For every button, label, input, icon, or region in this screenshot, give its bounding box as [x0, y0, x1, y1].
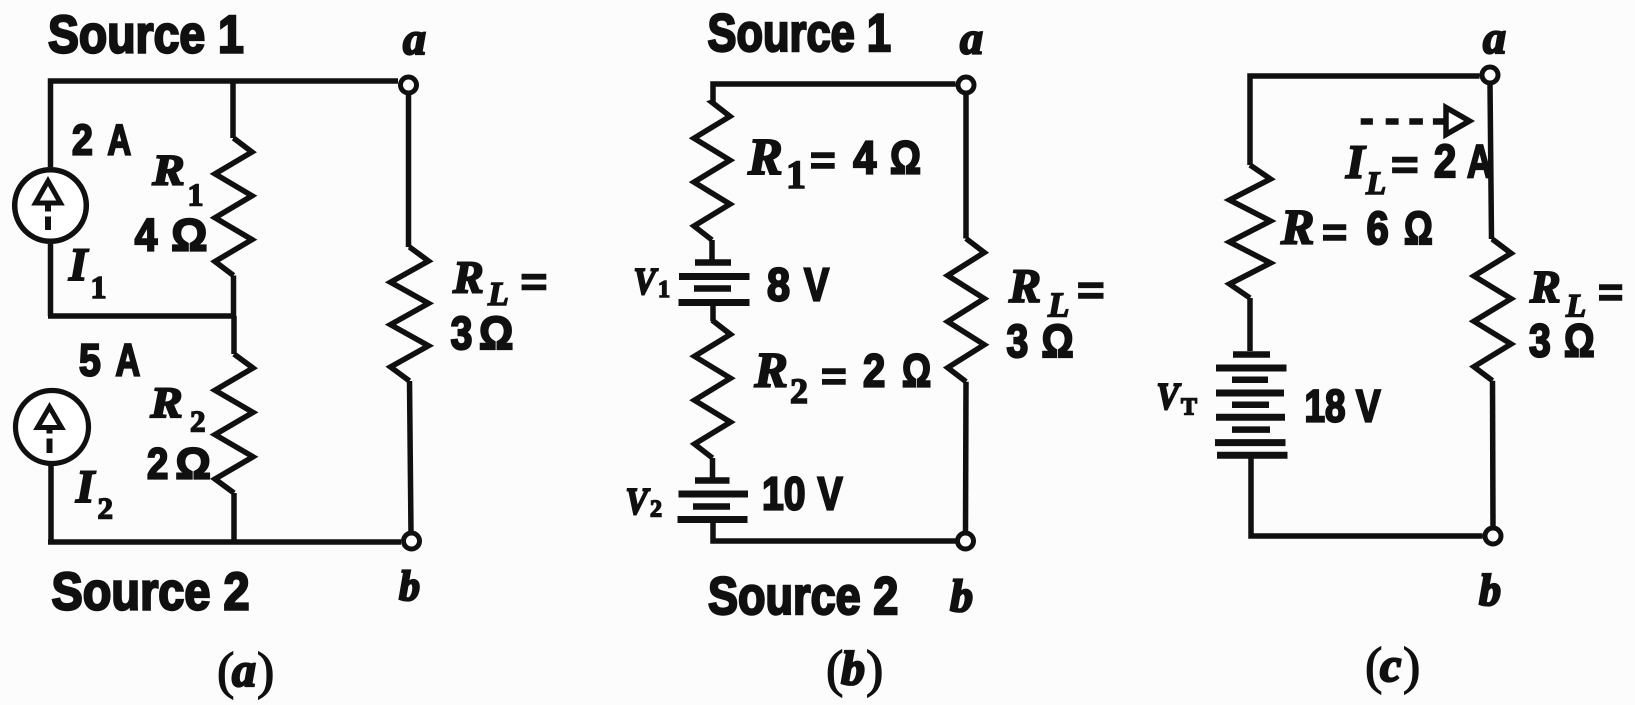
svg-text:R: R	[1280, 199, 1314, 255]
node a (b) open terminal	[958, 77, 974, 93]
label I2	[75, 461, 113, 526]
wire: (b) load branch RL to node b	[963, 382, 969, 533]
resistor RL (c) 3 ohm zigzag	[1474, 239, 1511, 381]
label 3 ohm (b)	[1007, 316, 1074, 368]
wire: (c) stub R to battery VT	[1247, 298, 1253, 351]
svg-text:18: 18	[1305, 381, 1346, 431]
node b (a) open terminal	[404, 533, 420, 549]
label 8 V	[767, 259, 829, 311]
svg-text:): )	[1403, 638, 1420, 695]
svg-text:6: 6	[1367, 203, 1389, 254]
svg-text:Source 2: Source 2	[708, 567, 898, 626]
resistor R1 (b) 4 ohm zigzag	[694, 102, 730, 240]
svg-text:2: 2	[190, 404, 206, 439]
svg-text:=: =	[821, 353, 847, 398]
svg-text:R: R	[1529, 261, 1561, 312]
svg-text:L: L	[487, 276, 509, 313]
caption (c)	[1365, 638, 1420, 695]
label RL = (a)	[452, 252, 547, 314]
svg-text:3: 3	[1007, 316, 1029, 368]
svg-text:V: V	[804, 259, 829, 310]
svg-text:Source 2: Source 2	[52, 562, 250, 621]
label R = 6 ohm (c)	[1280, 199, 1433, 255]
wire: (a) load branch from RL to node b	[410, 381, 412, 533]
label Source 1 (a)	[48, 5, 244, 65]
svg-text:1: 1	[91, 269, 107, 305]
svg-text:I: I	[1345, 136, 1367, 189]
label 5 A	[79, 335, 140, 386]
wire: (b) stub V1 to R2	[710, 303, 716, 321]
label 10 V	[762, 468, 843, 520]
svg-text:a: a	[960, 13, 983, 64]
wire: (b) stub R1 to battery V1	[709, 240, 715, 260]
wire: (a) R1 branch top stub	[230, 81, 236, 138]
resistor RL (b) 3 ohm zigzag	[948, 239, 985, 382]
label 4 ohm	[135, 210, 208, 262]
wire: (b) bottom rail	[713, 520, 956, 541]
label R2 = 2 ohm (b)	[754, 342, 932, 412]
svg-text:A: A	[108, 116, 132, 164]
current source I2 (a) circle with dashed up-arrow	[16, 391, 89, 464]
node b (b) open terminal	[958, 533, 974, 549]
wire: (a) left branch between I1 and middle rail	[48, 244, 54, 316]
wire: (a) R2 bottom stub to bottom rail	[231, 493, 237, 542]
svg-text:I: I	[75, 461, 96, 513]
svg-text:8: 8	[767, 260, 790, 312]
svg-text:V: V	[1356, 381, 1381, 431]
label Source 1 (b)	[708, 4, 892, 63]
svg-text:2: 2	[863, 346, 885, 397]
svg-text:4: 4	[135, 211, 158, 261]
svg-text:=: =	[521, 260, 548, 305]
svg-text:Ω: Ω	[479, 309, 513, 360]
wire: (a) left branch I2 to bottom rail	[48, 463, 54, 542]
svg-text:10: 10	[762, 469, 805, 521]
label Source 2 (a)	[52, 562, 250, 621]
node a (a) open terminal	[401, 77, 417, 93]
caption (a)	[217, 643, 274, 700]
svg-text:Ω: Ω	[171, 210, 207, 261]
wire: (a) bottom rail to node b	[48, 539, 401, 545]
svg-text:1: 1	[188, 177, 204, 213]
battery VT (c) 18 V plates	[1215, 355, 1288, 456]
svg-text:Ω: Ω	[1404, 203, 1433, 254]
wire: (c) top rail	[1250, 76, 1480, 165]
current source I1 (a) circle with dashed up-arrow	[15, 170, 87, 242]
svg-text:2: 2	[790, 371, 808, 411]
wire: (b) stub R2 to battery V2	[710, 458, 716, 478]
svg-text:2: 2	[1434, 137, 1456, 188]
resistor R (c) 6 ohm zigzag	[1230, 165, 1271, 298]
svg-text:c: c	[1380, 639, 1401, 692]
svg-text:2: 2	[72, 116, 93, 164]
resistor R2 (b) 2 ohm zigzag	[695, 320, 731, 458]
node a (c) open terminal	[1482, 67, 1498, 83]
svg-text:b: b	[841, 642, 865, 695]
wire: (b) top rail	[713, 84, 956, 102]
svg-text:V: V	[626, 480, 651, 522]
label IL = 2 A (c)	[1345, 135, 1492, 202]
svg-text:V: V	[634, 260, 659, 302]
svg-text:R: R	[754, 342, 788, 398]
wire: (a) middle rail joining sources to R2 branch	[48, 313, 236, 319]
node b (a) terminal label	[399, 564, 420, 610]
svg-text:Ω: Ω	[176, 440, 211, 489]
label RL = (b)	[1008, 260, 1105, 325]
label 2 ohm (R2 value)	[147, 439, 211, 488]
svg-text:): )	[257, 643, 274, 700]
svg-text:=: =	[1322, 209, 1347, 254]
svg-text:=: =	[1391, 142, 1419, 187]
node a (a) terminal label	[403, 13, 426, 64]
svg-text:A: A	[116, 336, 141, 386]
wire: (b) load branch node a to RL	[963, 93, 969, 239]
battery V2 (b) 10 V plates	[678, 481, 749, 520]
svg-text:Source 1: Source 1	[48, 5, 244, 65]
label V1 (b)	[634, 260, 671, 303]
svg-text:Ω: Ω	[902, 344, 931, 396]
svg-text:1: 1	[658, 277, 670, 303]
label Source 2 (b)	[708, 567, 898, 626]
caption (b)	[826, 641, 883, 698]
svg-text:V: V	[818, 468, 843, 519]
svg-text:a: a	[232, 644, 256, 697]
node a (b) terminal label	[960, 13, 983, 64]
battery V1 (b) 8 V plates	[679, 263, 750, 303]
label V2 (b)	[626, 480, 663, 522]
svg-text:b: b	[950, 570, 973, 621]
label R2	[149, 378, 205, 438]
label VT (c)	[1157, 375, 1198, 420]
wire: (a) load branch from node a to RL	[406, 93, 412, 247]
svg-text:Ω: Ω	[890, 132, 921, 183]
svg-text:a: a	[403, 13, 426, 64]
svg-text:L: L	[1365, 166, 1386, 202]
label R1 = 4 ohm (b)	[747, 129, 921, 197]
resistor RL (a) 3 ohm zigzag	[391, 247, 429, 381]
wire: (c) bottom rail	[1251, 456, 1483, 536]
label R1	[151, 146, 203, 213]
label 3 ohm (c)	[1529, 315, 1595, 367]
label 3 ohm (a)	[451, 308, 514, 360]
wire: (a) top rail from left branch to node a	[51, 81, 399, 167]
svg-text:Source 1: Source 1	[708, 4, 892, 63]
node b (c) terminal label	[1479, 566, 1501, 615]
node b (b) terminal label	[950, 570, 973, 621]
svg-text:2: 2	[147, 439, 168, 488]
svg-text:a: a	[1483, 12, 1506, 63]
label 18 V	[1305, 381, 1382, 431]
svg-text:R: R	[1008, 260, 1041, 313]
node b (c) open terminal	[1485, 528, 1501, 544]
svg-text:2: 2	[98, 491, 114, 526]
svg-text:T: T	[1181, 395, 1197, 421]
node a (c) terminal label	[1483, 12, 1506, 63]
svg-text:3: 3	[451, 308, 473, 360]
svg-text:I: I	[68, 239, 89, 291]
svg-text:4: 4	[853, 133, 877, 185]
svg-text:R: R	[149, 378, 182, 426]
svg-text:=: =	[1598, 269, 1623, 314]
svg-text:=: =	[1077, 268, 1105, 313]
svg-text:2: 2	[650, 497, 662, 523]
wire: (c) load branch RL to node b	[1490, 381, 1496, 528]
svg-text:=: =	[810, 137, 836, 182]
svg-text:1: 1	[786, 152, 806, 197]
svg-text:R: R	[452, 252, 484, 303]
svg-text:R: R	[747, 129, 783, 186]
label 2 A	[72, 116, 131, 165]
label RL = (c)	[1529, 261, 1623, 325]
resistor R2 (a) 2 ohm zigzag	[215, 354, 253, 493]
svg-text:R: R	[151, 146, 184, 194]
wire: (a) R1 bottom stub to middle rail	[231, 276, 237, 317]
svg-text:b: b	[399, 564, 420, 610]
label I1	[68, 239, 107, 305]
svg-text:b: b	[1479, 566, 1501, 615]
svg-text:V: V	[1157, 375, 1182, 417]
svg-text:Ω: Ω	[1564, 315, 1595, 366]
resistor R1 (a) 4 ohm zigzag	[215, 138, 252, 276]
wire: (a) R2 branch top stub	[231, 316, 237, 354]
svg-text:5: 5	[79, 335, 101, 385]
wire: (c) load branch node a to RL	[1490, 83, 1492, 239]
dashed current arrow IL (c)	[1361, 108, 1470, 135]
svg-text:3: 3	[1529, 316, 1551, 368]
svg-text:Ω: Ω	[1042, 316, 1074, 367]
svg-text:): )	[866, 641, 883, 698]
